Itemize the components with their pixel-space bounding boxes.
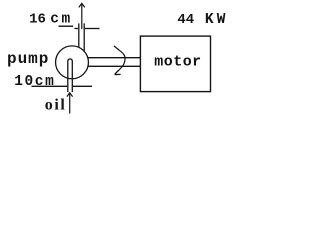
discharge pipe left wall (78, 23, 80, 47)
underline under cm (59, 25, 74, 27)
svg-text:pump: pump (7, 50, 48, 68)
svg-text:oil: oil (45, 96, 66, 113)
oil level line right of suction pipe (73, 85, 92, 87)
motor box (140, 36, 210, 92)
svg-text:10cm: 10cm (14, 74, 54, 90)
discharge pipe right wall (83, 23, 85, 51)
up-flow arrow above discharge pipe (79, 3, 85, 29)
shaft bottom line (87, 65, 140, 67)
oil level line left of suction pipe (32, 85, 68, 87)
svg-text:44: 44 (177, 12, 194, 28)
suction pipe inside pump (68, 59, 73, 92)
rotation arrow on shaft (114, 46, 125, 75)
pump circle (56, 46, 89, 79)
label 44 KW (177, 12, 225, 28)
oil level tick on discharge pipe (74, 28, 99, 30)
oil suction arrow (67, 93, 73, 114)
svg-text:16: 16 (29, 12, 46, 28)
svg-text:motor: motor (154, 54, 201, 71)
label 16 cm (29, 12, 70, 28)
shaft top line (87, 57, 140, 59)
